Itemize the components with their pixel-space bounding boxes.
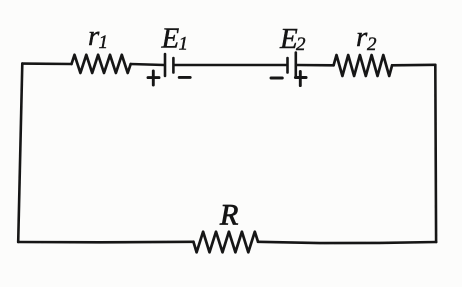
wire bottom left segment [18, 241, 193, 244]
battery E2 positive plate (long) [294, 53, 297, 76]
minus sign of E2 [271, 77, 282, 80]
resistor r1 [72, 55, 131, 73]
resistor r2 [334, 55, 393, 76]
minus sign of E1 [179, 76, 190, 79]
battery E1 positive plate (long) [164, 54, 167, 76]
label r2 [356, 21, 377, 55]
battery E1 negative plate (short) [172, 58, 175, 73]
svg-text:R: R [219, 199, 238, 232]
wire left side [18, 64, 22, 242]
battery E2 negative plate (short) [286, 58, 289, 73]
label E2 [279, 23, 306, 55]
svg-text:1: 1 [179, 34, 189, 55]
wire r1 to E1 [131, 64, 164, 65]
plus sign of E1 [148, 71, 159, 85]
plus sign of E2 [295, 71, 306, 85]
label r1 [88, 20, 108, 53]
svg-text:1: 1 [99, 32, 109, 53]
svg-text:2: 2 [296, 34, 306, 55]
wire top-left segment [22, 62, 71, 65]
label E1 [161, 23, 189, 55]
resistor R [193, 232, 258, 253]
wire bottom right segment [258, 242, 436, 243]
wire right side [434, 65, 437, 242]
wire E1 to E2 [174, 64, 286, 67]
svg-text:2: 2 [367, 34, 377, 55]
wire r2 to top-right corner [392, 64, 435, 67]
wire E2 to r2 [297, 64, 334, 67]
svg-text:E: E [161, 23, 180, 55]
